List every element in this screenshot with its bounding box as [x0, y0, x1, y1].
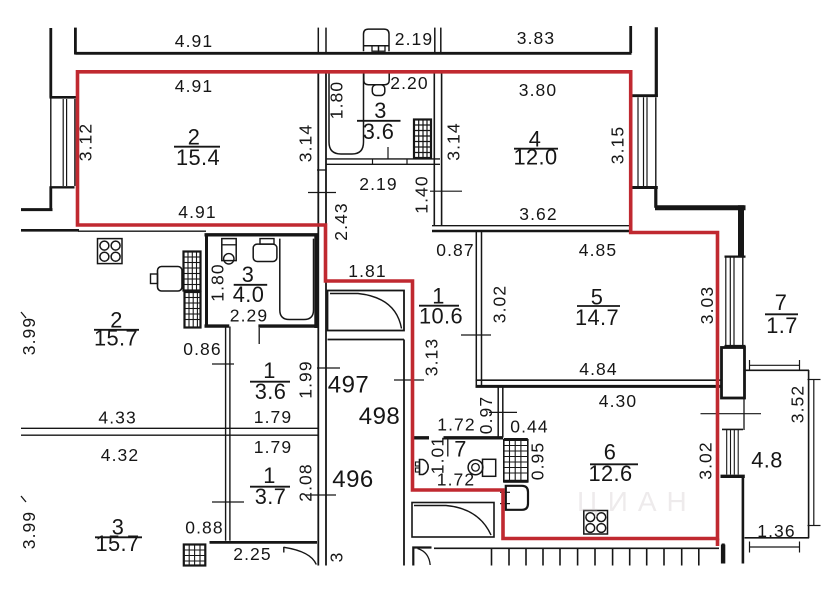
- right bay window glazing: [637, 97, 639, 186]
- left window bottom cap: [50, 186, 75, 188]
- lower face of wall under room2: thick part: [21, 229, 79, 232]
- svg-text:1.36: 1.36: [757, 521, 795, 541]
- room3 radiator shaft: [414, 120, 431, 159]
- svg-text:2.19: 2.19: [395, 29, 433, 49]
- svg-text:1.01: 1.01: [428, 436, 448, 474]
- svg-text:3: 3: [327, 552, 347, 563]
- left wall below window: [49, 187, 52, 211]
- svg-text:1.79: 1.79: [254, 407, 292, 427]
- svg-text:4.30: 4.30: [599, 391, 637, 411]
- neighbour stove: [98, 239, 123, 264]
- svg-text:3.99: 3.99: [19, 317, 39, 355]
- svg-text:3.02: 3.02: [490, 285, 510, 323]
- right bay: wall above window: [655, 27, 658, 97]
- svg-text:12.0: 12.0: [513, 145, 557, 170]
- window 3 (room6 east): [722, 428, 743, 430]
- radiator shaft A: [184, 252, 201, 291]
- svg-text:10.6: 10.6: [419, 304, 463, 329]
- svg-text:3.15: 3.15: [608, 126, 628, 164]
- right bay window bottom cap: [632, 186, 658, 189]
- wall piece below window3: [721, 475, 745, 478]
- svg-text:0.88: 0.88: [185, 518, 223, 538]
- room3 toilet: [364, 74, 389, 85]
- svg-text:1.72: 1.72: [437, 415, 475, 435]
- left window top cap: [50, 96, 77, 99]
- svg-text:15.4: 15.4: [176, 145, 220, 170]
- svg-text:2.19: 2.19: [359, 174, 397, 194]
- washing machine: [158, 267, 183, 292]
- svg-text:7: 7: [454, 437, 467, 462]
- svg-text:4.91: 4.91: [175, 31, 213, 51]
- red apartment outline: [78, 72, 718, 546]
- bathroom bathtub: [280, 239, 314, 320]
- svg-text:12.6: 12.6: [588, 461, 632, 486]
- room3 bottom wall double: [326, 158, 440, 160]
- left window glazing: [50, 98, 52, 188]
- svg-text:3.14: 3.14: [444, 122, 464, 160]
- dim line top of 4.8: [750, 364, 800, 366]
- railing end block: [721, 545, 725, 564]
- radiator shaft B: [185, 292, 201, 328]
- svg-text:4.8: 4.8: [751, 448, 783, 473]
- svg-text:1.79: 1.79: [254, 437, 292, 457]
- svg-text:4.91: 4.91: [175, 76, 213, 96]
- svg-text:2.20: 2.20: [390, 73, 428, 93]
- svg-text:1.7: 1.7: [766, 313, 798, 338]
- step wall piece: [654, 188, 657, 208]
- svg-text:3.52: 3.52: [788, 385, 808, 423]
- svg-text:3.14: 3.14: [296, 124, 316, 162]
- svg-text:3.12: 3.12: [76, 123, 96, 161]
- svg-text:4.84: 4.84: [579, 359, 617, 379]
- tiny left ticks: [21, 312, 26, 318]
- room4 bottom wall double: [432, 225, 632, 227]
- svg-text:4.33: 4.33: [98, 408, 136, 428]
- top outer wall: [75, 52, 631, 55]
- svg-text:2.43: 2.43: [331, 202, 351, 240]
- tick neighbour wall upper: [212, 363, 234, 365]
- tick room4 wall: [430, 190, 462, 192]
- right wall vertical lower: [742, 476, 745, 563]
- room 4.8 box: [745, 369, 810, 371]
- dim pointer below 3.6: [387, 147, 389, 159]
- wall connector line right: [743, 398, 745, 430]
- hall|room6 wall pair 0.97: [497, 387, 499, 438]
- svg-text:3.02: 3.02: [696, 441, 716, 479]
- svg-text:0.86: 0.86: [183, 339, 221, 359]
- big top-right outer wall: [655, 205, 746, 210]
- toilet above top wall: [364, 29, 390, 51]
- wc7 toilet: [483, 459, 496, 476]
- svg-text:0.87: 0.87: [436, 240, 474, 260]
- radiator shaft C bottom: [184, 545, 206, 566]
- svg-text:2.25: 2.25: [233, 544, 271, 564]
- wall pair joint tick: [317, 169, 327, 171]
- tick neighbour wall lower: [212, 501, 244, 503]
- top-left wall stub vertical: [49, 28, 52, 98]
- bathroom door leaf: [258, 328, 260, 344]
- room3|room4 wall pair: [433, 73, 435, 226]
- neighbour bathroom box: [205, 234, 208, 328]
- svg-text:3.6: 3.6: [363, 119, 395, 144]
- window 2 (room5 east): [725, 256, 746, 258]
- svg-text:1.40: 1.40: [412, 175, 432, 213]
- room2|room3 wall pair (continues down through stairwell): [317, 73, 319, 566]
- svg-text:4.0: 4.0: [233, 282, 265, 307]
- svg-text:3.80: 3.80: [519, 80, 557, 100]
- svg-text:1.80: 1.80: [327, 81, 347, 119]
- room5 bottom wall: [476, 379, 723, 381]
- dimension tick across red right: [701, 413, 762, 415]
- room6 sink fixture: [506, 486, 528, 510]
- neighbour wall pair vertical (15.7|3.6): [225, 327, 227, 541]
- svg-text:498: 498: [359, 403, 401, 430]
- svg-text:4.32: 4.32: [101, 445, 139, 465]
- wc7 door leaf: [447, 440, 449, 457]
- svg-text:3.7: 3.7: [255, 484, 287, 509]
- neighbour 3.7 room bottom wall: [210, 541, 318, 544]
- svg-text:2.29: 2.29: [230, 306, 268, 326]
- svg-text:3.99: 3.99: [19, 511, 39, 549]
- wall stub above top wall right: [629, 26, 632, 53]
- svg-text:4.85: 4.85: [579, 240, 617, 260]
- pilaster column box: [722, 348, 745, 399]
- ventilation shaft hatched: [504, 440, 528, 482]
- small wall stub bottom: [722, 544, 725, 564]
- svg-text:7: 7: [775, 290, 788, 315]
- red corner stub: [716, 539, 720, 547]
- balcony railing: [434, 547, 719, 549]
- room6 stove: [584, 511, 608, 535]
- svg-text:1.81: 1.81: [348, 261, 386, 281]
- left porch wall: [21, 208, 53, 211]
- svg-text:0.44: 0.44: [510, 417, 548, 437]
- svg-text:ЦИАН: ЦИАН: [577, 486, 697, 517]
- svg-text:15.7: 15.7: [95, 531, 139, 556]
- partition pair above top wall (left of toilet): [317, 28, 319, 52]
- stairwell shaft box 497/498: [328, 339, 405, 341]
- svg-text:1.80: 1.80: [208, 263, 228, 301]
- svg-text:497: 497: [328, 372, 370, 399]
- wc7 top wall with door opening: [413, 436, 430, 439]
- svg-text:4.91: 4.91: [178, 202, 216, 222]
- svg-text:3.13: 3.13: [422, 338, 442, 376]
- tick wc wall: [489, 411, 517, 413]
- dim line right of 4.8: [813, 380, 815, 526]
- wc7 sink: [420, 460, 429, 475]
- balcony corner icon: [413, 548, 431, 566]
- svg-text:2.08: 2.08: [296, 463, 316, 501]
- right outer wall vertical: [738, 205, 744, 256]
- room3 bathtub: [329, 72, 364, 155]
- tick room2 wall: [308, 192, 336, 194]
- lower face thin part: [78, 230, 206, 232]
- svg-text:3.62: 3.62: [519, 204, 557, 224]
- svg-text:3.6: 3.6: [255, 379, 287, 404]
- svg-text:3.83: 3.83: [517, 28, 555, 48]
- bathroom toilet: [260, 239, 274, 245]
- svg-text:0.95: 0.95: [528, 442, 548, 480]
- room3 door jambs: [372, 159, 374, 165]
- balcony loggia box below wc: [412, 503, 494, 538]
- neighbour door arc bottom: [284, 547, 316, 564]
- svg-text:15.7: 15.7: [94, 326, 138, 351]
- partition pair above top wall (right of toilet label): [434, 28, 436, 52]
- svg-text:0.97: 0.97: [476, 396, 496, 434]
- dim line bottom of 4.8: [750, 546, 800, 548]
- svg-text:14.7: 14.7: [575, 305, 619, 330]
- bathroom sink: [222, 239, 236, 261]
- tick hallway wall: [461, 334, 491, 336]
- ticks stairwell: [317, 367, 340, 369]
- svg-text:3.03: 3.03: [697, 286, 717, 324]
- neighbour double wall 4.33/4.32: [21, 427, 319, 429]
- hallway|room5 wall pair: [475, 232, 477, 388]
- svg-text:1.99: 1.99: [296, 360, 316, 398]
- stairwell elevator box: [328, 291, 405, 331]
- top-left wall stub 2: [74, 28, 77, 55]
- svg-text:496: 496: [332, 466, 374, 493]
